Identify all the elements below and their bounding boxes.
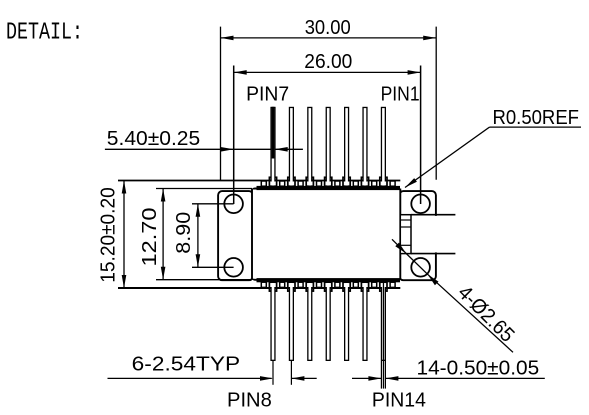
mounting hole top-right xyxy=(411,195,430,214)
svg-text:15.20±0.20: 15.20±0.20 xyxy=(97,187,120,283)
dimension line 15.20 xyxy=(123,181,125,289)
right mounting flange xyxy=(399,191,436,280)
body left edge xyxy=(251,189,253,280)
left mounting flange xyxy=(218,191,253,280)
bottom pins P8..P14 xyxy=(270,287,275,361)
right flange edge gap for fiber snout xyxy=(433,216,438,253)
svg-text:30.00: 30.00 xyxy=(305,16,351,39)
svg-text:PIN14: PIN14 xyxy=(372,388,426,411)
mounting hole bottom-left xyxy=(224,258,243,277)
svg-text:8.90: 8.90 xyxy=(172,212,195,254)
svg-text:12.70: 12.70 xyxy=(138,208,161,267)
fiber snout top line xyxy=(411,214,455,216)
26.00 right extension line xyxy=(420,66,422,205)
30.00 left extension line xyxy=(220,27,222,181)
R0.50REF leader xyxy=(405,127,490,187)
pin P9 extension line xyxy=(290,361,292,385)
top seam rail / 15.20 extension line xyxy=(118,180,400,182)
svg-text:6-2.54TYP: 6-2.54TYP xyxy=(132,353,240,376)
4-Ø2.65 leader tail xyxy=(428,274,514,352)
dimension line 12.70 xyxy=(162,189,164,280)
dimension line 5.40 left part xyxy=(105,148,272,150)
bottom seam comb xyxy=(257,278,401,282)
ferrule internal line 2 xyxy=(400,226,411,228)
pin P8 extension line xyxy=(272,361,274,385)
4-Ø2.65 leader upper segment xyxy=(392,239,406,253)
svg-text:14-0.50±0.05: 14-0.50±0.05 xyxy=(417,357,540,380)
14-0.50 right arrow xyxy=(385,377,544,379)
mounting hole bottom-right xyxy=(411,258,430,277)
26.00 left extension line xyxy=(233,66,235,205)
mounting hole top-left xyxy=(224,195,243,214)
ferrule internal line 1 xyxy=(400,219,411,221)
8.90 top extension line xyxy=(192,203,234,205)
dimension line 30.00 xyxy=(221,37,437,39)
fiber ferrule block xyxy=(400,215,411,254)
dimension line 6-2.54TYP xyxy=(108,377,272,379)
dimension line 8.90 xyxy=(197,204,199,267)
svg-text:R0.50REF: R0.50REF xyxy=(493,106,580,129)
6-2.54TYP right arrow xyxy=(291,377,316,379)
svg-text:26.00: 26.00 xyxy=(304,50,352,73)
top seam comb xyxy=(257,186,401,190)
bottom seam rail / 15.20 extension line xyxy=(118,287,400,289)
dimension line 26.00 xyxy=(234,71,421,73)
body right edge xyxy=(399,189,401,280)
pin P7 center extension line (5.40 dim) xyxy=(272,107,275,159)
svg-text:PIN8: PIN8 xyxy=(227,389,272,412)
14-0.50 left arrow xyxy=(352,377,381,379)
4-Ø2.65 leader through hole xyxy=(406,254,427,275)
top pins P7..P1 xyxy=(270,107,275,182)
ferrule internal line 3 xyxy=(400,244,411,246)
12.70 bottom extension line xyxy=(156,279,252,281)
30.00 right extension line xyxy=(435,27,437,180)
fiber snout bottom line xyxy=(411,253,455,255)
pin P14 center extension line xyxy=(383,283,384,389)
svg-text:PIN7: PIN7 xyxy=(246,82,289,105)
svg-text:5.40±0.25: 5.40±0.25 xyxy=(107,127,200,150)
svg-text:DETAIL:: DETAIL: xyxy=(6,20,83,47)
dimension 5.40 right arrow xyxy=(275,148,303,150)
body fill over flange inner edges xyxy=(252,190,400,279)
svg-text:PIN1: PIN1 xyxy=(381,82,420,105)
package body outline xyxy=(252,189,400,280)
12.70 top extension line xyxy=(156,188,252,190)
pin P14 edge extension lines xyxy=(380,361,382,389)
8.90 bottom extension line xyxy=(192,266,234,268)
